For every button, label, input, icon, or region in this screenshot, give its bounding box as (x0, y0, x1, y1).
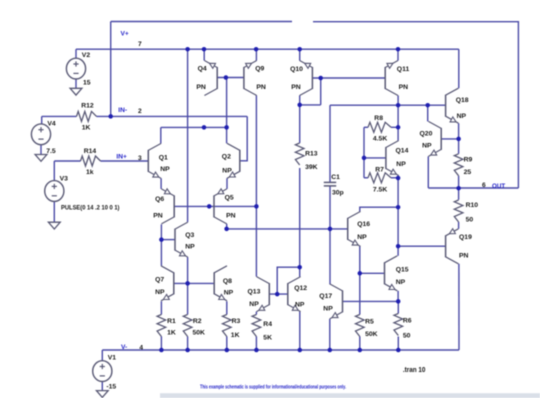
wire Q19 base to Q15 collector node (398, 245, 446, 247)
wire Q7 base to Q8 base (174, 282, 214, 284)
junction IN- / feedback (108, 114, 113, 119)
wire Q1 collector stub (160, 127, 162, 143)
transistor Q20 (428, 121, 441, 156)
wire Q3 collector up to V+ rail (187, 49, 189, 222)
wire R6 to V- rail (397, 337, 399, 351)
wire Q16 emitter down to Q15 base and R5 (359, 246, 361, 314)
junction Q4/Q9 base rail tap (224, 75, 229, 80)
resistor R13 39K (295, 143, 304, 165)
wire V4 top lead (41, 116, 43, 124)
wire Q17 emitter to V- rail (329, 319, 331, 350)
junction Q3 collector on V+ rail (185, 47, 190, 52)
svg-text:NP: NP (160, 166, 170, 173)
voltage source V3 (45, 181, 64, 202)
junction Q13/Q12 base tap (275, 292, 280, 297)
wire C1 bottom to Q17 collector (329, 186, 331, 285)
transistor Q19 (output PNP) (446, 229, 459, 264)
wire Q1 emitter to Q6 emitter (160, 178, 162, 189)
svg-text:NP: NP (323, 306, 333, 313)
junction R5 on V- rail (358, 348, 363, 353)
svg-text:NP: NP (295, 302, 305, 309)
resistor R10 50 (454, 200, 463, 222)
wire IN- net (node 2) R12 to Q2 base drop (97, 115, 248, 117)
junction Q3 emitter on Q7/Q8 base line (185, 281, 190, 286)
wire V4 to ground (40, 144, 42, 154)
svg-text:Q15: Q15 (396, 267, 409, 274)
wire R8 left lead (364, 126, 368, 128)
svg-text:R12: R12 (81, 103, 94, 110)
wire Q15 emitter to Q17 base node (397, 291, 399, 302)
wire V2 to ground (75, 79, 77, 88)
junction Q14 base / R8-R7 left (362, 156, 367, 161)
wire IN+ net (node 3) R14 to Q1 base (101, 160, 149, 162)
wire node down to Q20 collector (427, 105, 429, 121)
svg-text:-15: -15 (106, 383, 116, 390)
wire R8 right to Q14 collector (391, 126, 398, 128)
wire Q20 base to Q18 emitter / R9 node (441, 138, 458, 140)
wire V2 to V+ rail (75, 49, 77, 58)
transistor Q4 (PNP mirror) (204, 61, 217, 96)
svg-text:7.5: 7.5 (46, 148, 56, 155)
transistor Q2 (NPN input) (227, 143, 240, 178)
junction Q5/Q8 collectors / second stage (224, 227, 229, 232)
svg-text:PN: PN (153, 213, 163, 220)
bottom grey strip (160, 393, 540, 398)
svg-text:PN: PN (291, 84, 301, 91)
svg-text:NP: NP (185, 244, 195, 251)
transistor Q18 (output NPN) (446, 88, 459, 123)
transistor Q14 (VBE multiplier) (386, 141, 399, 176)
wire feedback drop to IN- node (110, 22, 112, 117)
wire Q7 emitter to R1 (160, 301, 162, 314)
svg-text:50: 50 (403, 333, 411, 340)
transistor Q8 (NPN mirror) (214, 266, 227, 301)
svg-text:Q17: Q17 (319, 293, 332, 300)
junction R8 right (396, 125, 401, 130)
junction Q15 collector / Q19 base (396, 244, 401, 249)
wire R4 to V- rail (255, 337, 257, 351)
svg-text:NP: NP (224, 290, 234, 297)
svg-text:Q6: Q6 (155, 196, 164, 203)
wire V3 to ground (53, 202, 55, 223)
svg-text:PN: PN (399, 84, 409, 91)
wire Q9 emitter stub (255, 49, 257, 60)
wire V1 to ground (101, 381, 103, 390)
junction R9 / R10 on OUT rail (456, 186, 461, 191)
svg-text:Q1: Q1 (159, 154, 168, 161)
svg-text:2: 2 (138, 108, 142, 115)
svg-text:Q16: Q16 (357, 221, 370, 228)
svg-text:R3: R3 (232, 318, 241, 325)
wire Q11 collector stub (397, 96, 399, 106)
transistor Q17 (330, 284, 343, 319)
wire R13 bottom to Q12 collector node (299, 168, 301, 267)
wire R9 to OUT rail (458, 176, 460, 188)
svg-text:4.5K: 4.5K (373, 135, 387, 142)
svg-text:Q7: Q7 (155, 277, 164, 284)
svg-text:1K: 1K (167, 330, 176, 337)
wire Q10 collector node (300, 104, 321, 106)
svg-text:R14: R14 (84, 148, 97, 155)
svg-text:R8: R8 (374, 115, 383, 122)
svg-text:.tran 10: .tran 10 (403, 367, 426, 374)
junction R4 on V- rail (254, 348, 259, 353)
junction R13 bottom / Q12 collector (297, 265, 302, 270)
wire Q18 emitter to R9 (458, 123, 460, 154)
svg-text:R1: R1 (167, 318, 176, 325)
wire V+ rail down to Q18 collector (458, 49, 460, 88)
svg-text:50K: 50K (193, 330, 206, 337)
resistor R14 1k (81, 156, 101, 166)
transistor Q6 (PNP cascode) (161, 189, 174, 224)
svg-text:R5: R5 (365, 319, 374, 326)
junction Q14 emitter / R7 right (396, 176, 401, 181)
wire Q4 emitter stub (203, 49, 205, 60)
svg-text:39K: 39K (305, 164, 318, 171)
svg-text:PN: PN (459, 252, 469, 259)
wire Q10 base-collector tie (320, 78, 322, 105)
wire Q10 collector to R13 (299, 105, 301, 143)
resistor R4 5K (252, 315, 261, 337)
svg-text:3: 3 (138, 155, 142, 162)
svg-text:NP: NP (357, 234, 367, 241)
svg-text:R13: R13 (305, 151, 318, 158)
resistor R8 4.5K (368, 122, 391, 132)
wire Q9 collector drop (255, 96, 257, 207)
junction Q9 emitter on V+ rail (254, 47, 259, 52)
svg-text:1k: 1k (86, 169, 94, 176)
ground below V4 (35, 155, 47, 162)
svg-text:V+: V+ (121, 30, 129, 37)
ground below V3 (48, 222, 60, 229)
wire V- rail (node 4) (102, 349, 459, 351)
svg-text:NP: NP (457, 113, 467, 120)
transistor Q15 (385, 256, 398, 291)
svg-text:6: 6 (482, 182, 486, 189)
junction Q11 emitter on V+ rail (396, 47, 401, 52)
wire Q13/Q12 base tap up to R13/Q12 collector node (277, 267, 300, 294)
wire R10 to Q19 emitter (458, 222, 460, 229)
svg-text:30p: 30p (332, 190, 344, 197)
wire OUT to R10 (458, 188, 460, 200)
wire feedback top segment (right) and right-edge drop to OUT (313, 22, 518, 188)
svg-text:PN: PN (256, 84, 266, 91)
wire OUT rail (node 6) (428, 187, 518, 189)
wire R5 to V- rail (359, 337, 361, 351)
wire R8 left to R7 left / Q14 base tap (363, 127, 365, 178)
wire V3 to R14 (54, 160, 80, 162)
junction Q17 emitter on V- rail (328, 348, 333, 353)
wire Q12 emitter to V- rail (299, 312, 301, 350)
wire Q4 base to Q9 base (217, 77, 244, 79)
svg-text:PN: PN (196, 84, 206, 91)
svg-text:50: 50 (466, 216, 474, 223)
wire V+ rail (node 7) (76, 48, 459, 50)
junction Q11 collector / Q14 chain (396, 103, 401, 108)
svg-text:R9: R9 (464, 156, 473, 163)
wire Q15 base tap (360, 272, 385, 274)
wire V4 to R12 (42, 115, 77, 117)
svg-text:Q3: Q3 (185, 232, 194, 239)
svg-text:V2: V2 (82, 52, 91, 59)
svg-text:Q12: Q12 (294, 285, 307, 292)
wire V1 to V- rail (101, 350, 103, 361)
wire Q10 base to Q11 base (312, 77, 385, 79)
wire Q17 base to Q15 emitter / R6 node (343, 300, 399, 302)
svg-text:R7: R7 (375, 166, 384, 173)
svg-text:50K: 50K (365, 331, 378, 338)
junction C1 bottom on second-stage wire (328, 227, 333, 232)
svg-text:R2: R2 (193, 318, 202, 325)
svg-text:1K: 1K (231, 332, 240, 339)
transistor Q1 (NPN input) (148, 143, 161, 178)
junction R2 on V- rail (185, 348, 190, 353)
junction Q4 collector / input pair (202, 125, 207, 129)
junction R1 on V- rail (159, 348, 164, 353)
wire Q1/Q2 collectors to Q4 collector (input pair top) (161, 126, 227, 128)
junction Q20 collector / Q18 base (425, 103, 430, 108)
transistor Q5 (PNP cascode) (214, 189, 227, 224)
svg-text:R10: R10 (466, 202, 479, 209)
junction Q6/Q5 base line / Q9 collector (254, 204, 259, 209)
svg-text:PN: PN (226, 213, 236, 220)
wire Q3 base tap (161, 239, 175, 241)
svg-text:Q13: Q13 (248, 288, 261, 295)
resistor R5 50K (356, 315, 365, 337)
wire R7 right lead (391, 177, 398, 179)
svg-text:Q5: Q5 (225, 195, 234, 202)
wire node to R6 (397, 301, 399, 313)
transistor Q11 (PNP mirror) (385, 61, 398, 96)
svg-text:Q2: Q2 (222, 154, 231, 161)
svg-text:NP: NP (396, 161, 406, 168)
resistor R1 1K (157, 315, 166, 337)
junction Q12 emitter on V- rail (298, 348, 303, 353)
resistor R9 25 (454, 154, 463, 176)
resistor R2 50K (183, 315, 192, 337)
transistor Q10 (PNP mirror) (300, 61, 313, 96)
svg-text:V-: V- (121, 344, 127, 351)
svg-text:4: 4 (139, 345, 143, 352)
ground below V1 (96, 391, 108, 398)
svg-text:Q9: Q9 (255, 66, 264, 73)
junction Q18 emitter / Q20 base / R9 (456, 137, 461, 142)
svg-text:V4: V4 (47, 121, 56, 128)
svg-text:IN+: IN+ (116, 154, 127, 161)
wire R2 to V- rail (187, 337, 189, 351)
wire Q9 collector node down to Q13 collector (255, 206, 257, 276)
wire Q10 collector stub (299, 96, 301, 105)
wire Q13 emitter to R4 (255, 312, 257, 315)
resistor R3 1K (223, 315, 232, 337)
svg-text:Q14: Q14 (396, 148, 409, 155)
capacitor C1 30p (324, 182, 336, 186)
wire Q6 collector to Q7 collector (160, 224, 162, 265)
junction R6 on V- rail (396, 348, 401, 353)
svg-text:Q11: Q11 (397, 66, 410, 73)
junction Q10 base tie (318, 76, 323, 81)
junction Q10 collector / R13 (297, 103, 302, 108)
transistor Q12 (288, 277, 301, 312)
svg-text:25: 25 (464, 169, 472, 176)
junction Q15 base on Q16 emitter column (358, 271, 363, 276)
svg-text:7.5K: 7.5K (373, 187, 387, 194)
wire Q4/Q9 base rail down to Q2 collector (226, 78, 228, 144)
junction Q10 emitter on V+ rail (297, 47, 302, 52)
wire IN- drop to Q2 base (240, 116, 247, 160)
wire Q3 emitter down to Q7/Q8 base line and R2 (187, 257, 189, 314)
junction Q3 base on Q6-Q7 column (159, 237, 164, 242)
svg-text:V1: V1 (108, 354, 117, 361)
svg-text:IN-: IN- (118, 107, 127, 114)
svg-text:Q19: Q19 (459, 234, 472, 241)
wire R1 to V- rail (160, 337, 162, 351)
wire node down to C1 top plate (329, 105, 331, 182)
svg-text:Q18: Q18 (456, 97, 469, 104)
svg-text:NP: NP (155, 289, 165, 296)
junction R3 on V- rail (225, 348, 230, 353)
svg-text:7: 7 (138, 41, 142, 48)
transistor Q3 (mirror helper) (175, 222, 188, 257)
ground below V2 (70, 88, 82, 95)
svg-text:PULSE(0 14 .2 10 0 1): PULSE(0 14 .2 10 0 1) (61, 204, 120, 211)
svg-text:R6: R6 (403, 318, 412, 325)
wire Q11 emitter stub (397, 49, 399, 60)
transistor Q7 (NPN mirror) (161, 266, 174, 301)
svg-text:This example schematic is supp: This example schematic is supplied for i… (200, 385, 346, 391)
wire R7 left lead (364, 177, 368, 179)
svg-text:15: 15 (83, 80, 91, 87)
junction Q15 emitter / Q17 base / R6 (396, 299, 401, 304)
wire node to Q12 collector (299, 267, 301, 276)
svg-text:Q8: Q8 (223, 278, 232, 285)
wire Q16 collector to Q14 emitter chain (360, 207, 398, 211)
svg-text:Q4: Q4 (198, 66, 207, 73)
wire Q2 emitter to Q5 emitter (226, 178, 228, 189)
wire Q14 emitter / R7 node down to Q15 collector (397, 176, 399, 256)
wire R3 to V- rail (226, 337, 228, 351)
junction Q16 collector on Q14-Q15 chain (396, 205, 401, 210)
transistor Q9 (PNP mirror) (244, 61, 257, 96)
wire Q5 collector stub (226, 224, 228, 229)
svg-text:NP: NP (396, 279, 406, 286)
transistor Q13 (257, 277, 270, 312)
resistor R12 1K (77, 111, 97, 121)
wire V3 top lead (53, 161, 55, 180)
wire Q14 base (364, 157, 386, 159)
svg-text:NP: NP (222, 167, 232, 174)
svg-text:Q20: Q20 (420, 130, 433, 137)
wire Q20 emitter down to OUT rail (427, 156, 429, 188)
svg-text:NP: NP (249, 301, 259, 308)
wire Q13 base to Q12 base (269, 293, 288, 295)
wire second-stage input (Q5/Q8 collectors to Q16 base) (227, 228, 348, 230)
voltage source V2 (66, 58, 85, 79)
resistor R6 50 (394, 314, 403, 336)
junction Q5 base pin (207, 204, 212, 209)
junction Q2 collector node (224, 125, 229, 129)
svg-text:R4: R4 (263, 321, 272, 328)
wire Q19 collector down to V- rail (458, 264, 460, 350)
transistor Q16 (second stage) (348, 211, 361, 246)
wire Q6/Q5 base line to Q9 collector drop (174, 205, 256, 207)
wire Q11 collector node down through R8 to Q14 collector (397, 105, 399, 140)
svg-text:NP: NP (422, 143, 432, 150)
wire feedback OUT-to-IN- top segment (left) (111, 21, 292, 23)
wire Q10 emitter stub (299, 49, 301, 60)
resistor R7 7.5K (368, 173, 391, 183)
svg-text:1K: 1K (82, 125, 91, 132)
junction Q4 emitter on V+ rail (202, 47, 207, 52)
voltage source V1 (93, 361, 112, 382)
svg-text:V3: V3 (60, 176, 69, 183)
svg-text:5K: 5K (263, 335, 272, 342)
voltage source V4 (31, 124, 50, 145)
wire Q8 emitter to R3 (226, 301, 228, 314)
svg-text:OUT: OUT (492, 183, 505, 190)
svg-text:Q10: Q10 (290, 66, 303, 73)
wire C1 top / Q11 collector / Q18 base node (330, 104, 446, 106)
svg-text:C1: C1 (331, 174, 340, 181)
